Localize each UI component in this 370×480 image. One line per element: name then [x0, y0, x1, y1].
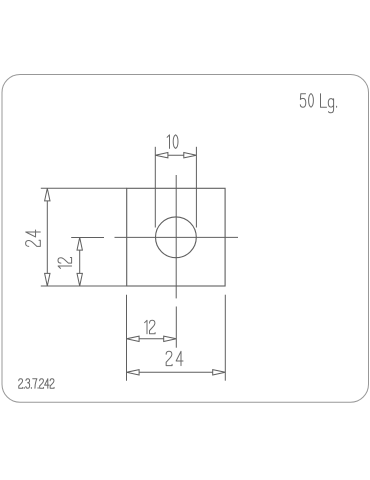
dim 10: dimension line — [168, 154, 184, 156]
dim 24 left: top extension line — [41, 187, 127, 189]
dim 24 left: bottom arrowhead — [45, 273, 50, 286]
dim 10: text — [167, 135, 169, 149]
dim 12 bottom: right arrowhead — [164, 336, 177, 341]
bottom: right extension line — [224, 295, 226, 381]
dim 12 left: bottom arrowhead — [77, 273, 82, 286]
dim 10: left arrowhead — [155, 153, 168, 158]
dim 12 left: dimension line — [79, 250, 81, 273]
vertical centerline — [175, 175, 177, 298]
dim 24 bottom: left arrowhead — [127, 370, 140, 375]
bottom: left extension line — [126, 295, 128, 381]
dim 24 left: bottom extension line — [41, 285, 127, 287]
dim 12 bottom: dimension line — [139, 338, 164, 340]
dim 24 bottom: dimension line — [139, 371, 213, 373]
dim 10: right arrowhead — [184, 153, 197, 158]
vertical centerline extension below — [175, 307, 177, 348]
dim 24 left: top arrowhead — [45, 188, 50, 201]
dim 10: right extension line — [195, 147, 197, 228]
drawing border frame — [2, 75, 369, 403]
hole circle dia 10 — [156, 217, 197, 258]
square plate outline — [127, 188, 225, 286]
dim 12 left: top arrowhead — [77, 238, 82, 251]
dim 24 bottom: right arrowhead — [213, 370, 226, 375]
dim 24 bottom: text — [166, 351, 172, 365]
dim 12 left: center extension line — [71, 237, 104, 239]
dim 24 left: text (rotated) — [26, 230, 41, 246]
part number 2.3.7.242 — [19, 379, 23, 389]
horizontal centerline — [115, 236, 239, 238]
dim 12 left: text (rotated) — [58, 258, 72, 269]
dim 10: left extension line — [154, 147, 156, 228]
dim 24 left: dimension line — [46, 201, 48, 274]
dim 12 bottom: text — [145, 320, 147, 334]
label 50 Lg. — [300, 94, 306, 108]
dim 12 bottom: left arrowhead — [127, 336, 140, 341]
